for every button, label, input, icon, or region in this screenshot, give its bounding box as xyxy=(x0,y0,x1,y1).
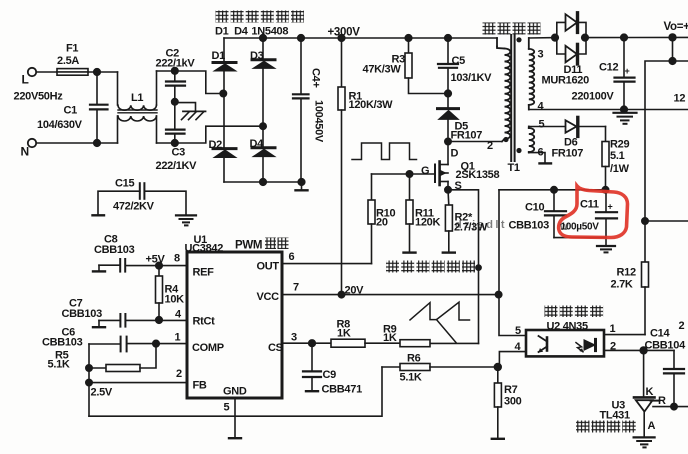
svg-text:CBB103: CBB103 xyxy=(94,244,135,256)
svg-text:D: D xyxy=(451,148,459,160)
diode D11 (parallel pair MUR1620) xyxy=(557,13,586,64)
watermark xyxy=(455,219,569,233)
ground stub HV- xyxy=(296,182,308,190)
wire L to fuse xyxy=(37,71,58,73)
node fuse/C1 junction xyxy=(94,69,101,76)
svg-text:D2: D2 xyxy=(209,139,223,151)
wire secondary return (pin4) xyxy=(529,109,688,111)
capacitor C6 xyxy=(89,337,127,352)
svg-text:2: 2 xyxy=(487,140,493,152)
op-amp U1 UC3842 box xyxy=(187,252,282,398)
ground below C12 xyxy=(614,110,637,124)
capacitor C15 xyxy=(93,183,187,215)
resistor R2 xyxy=(443,190,455,253)
wire OUT pin6 to R10 xyxy=(282,263,372,265)
capacitor C9 xyxy=(303,343,321,391)
capacitor C14 xyxy=(664,350,684,406)
svg-text:4: 4 xyxy=(175,309,182,321)
wire N to L1 xyxy=(37,142,118,144)
svg-text:T1: T1 xyxy=(508,162,520,174)
diode D4 xyxy=(252,126,275,182)
resistor R10 xyxy=(368,174,375,264)
svg-text:C15: C15 xyxy=(115,178,134,190)
svg-text:D1 D4 1N5408: D1 D4 1N5408 xyxy=(215,26,288,38)
node COMP/R5 xyxy=(153,340,160,347)
capacitor C1 xyxy=(90,72,108,143)
svg-text:FR107: FR107 xyxy=(552,148,584,160)
svg-text:UC3842: UC3842 xyxy=(185,243,224,255)
svg-text:R29: R29 xyxy=(610,139,629,151)
svg-text:D4: D4 xyxy=(250,138,265,150)
svg-text:FR107: FR107 xyxy=(451,130,483,142)
wire RtCt pin4 xyxy=(125,319,187,321)
svg-text:RtCt: RtCt xyxy=(193,316,216,328)
resistor R12 xyxy=(642,262,649,335)
svg-text:C9: C9 xyxy=(323,369,337,381)
node R3 top xyxy=(405,35,412,42)
optocoupler LED xyxy=(576,339,596,351)
svg-text:G: G xyxy=(421,165,429,177)
node C14/ref xyxy=(671,403,677,409)
svg-text:+: + xyxy=(625,66,630,76)
node D1/D2 midpoint xyxy=(220,90,226,96)
svg-text:REF: REF xyxy=(193,267,215,279)
svg-text:FB: FB xyxy=(193,380,207,392)
node VCC/20V xyxy=(495,291,501,297)
capacitor C3 xyxy=(166,102,185,146)
wire FB pin2 xyxy=(89,382,187,384)
diode D3 xyxy=(252,38,275,126)
wire GND pin5 stub xyxy=(229,398,241,438)
svg-text:5.1: 5.1 xyxy=(610,150,625,162)
node on sense line xyxy=(476,265,481,270)
svg-text:MUR1620: MUR1620 xyxy=(542,75,590,87)
svg-text:+5V: +5V xyxy=(146,254,166,266)
node gate/R11 xyxy=(406,171,412,177)
wire secondary top rail to D11 xyxy=(529,37,557,39)
svg-text:2: 2 xyxy=(679,320,685,332)
wire opto pin2 xyxy=(604,349,674,351)
capacitor C5 xyxy=(438,38,458,94)
svg-text:PWM: PWM xyxy=(235,240,262,252)
wire Vo jog to aux rail xyxy=(673,37,688,61)
wire fuse to node A xyxy=(88,71,118,73)
wire 20V (VCC pin7) xyxy=(282,294,499,296)
node D11 output xyxy=(582,34,589,41)
node C2/C3 midpoint xyxy=(172,99,178,105)
svg-text:D1: D1 xyxy=(212,50,226,62)
node Vo takeoff xyxy=(669,34,676,41)
svg-text:D3: D3 xyxy=(250,50,264,62)
terminal N xyxy=(28,139,36,147)
node N/C1 junction xyxy=(94,140,101,147)
svg-text:CBB103: CBB103 xyxy=(509,220,550,232)
ground below C11 xyxy=(597,246,615,252)
node R29 bottom xyxy=(602,187,608,193)
svg-text:2: 2 xyxy=(176,368,182,380)
svg-text:20V: 20V xyxy=(345,285,365,297)
svg-text:4: 4 xyxy=(538,101,545,113)
svg-text:R7: R7 xyxy=(504,384,518,396)
node D3 top xyxy=(260,35,267,42)
resistor R5 xyxy=(89,344,156,372)
node R12 rail branch xyxy=(642,218,648,224)
svg-text:120K/3W: 120K/3W xyxy=(349,99,394,111)
diode D1 xyxy=(213,38,236,94)
transistor Q1 2SK1358 xyxy=(435,142,448,190)
svg-text:120K: 120K xyxy=(415,217,440,229)
node C4 bottom xyxy=(298,179,305,186)
waveform square wave xyxy=(352,143,417,160)
svg-text:R: R xyxy=(658,395,666,407)
wire CS pin3 xyxy=(282,342,331,344)
resistor R6 xyxy=(382,364,498,371)
svg-text:220V50Hz: 220V50Hz xyxy=(14,91,64,103)
inductor L1 (common-mode choke) xyxy=(118,71,158,143)
node C12 top xyxy=(621,34,628,41)
svg-text:5.1K: 5.1K xyxy=(48,359,70,371)
node R1 top xyxy=(338,35,345,42)
wire primary ground rail xyxy=(89,367,382,416)
label 反激输出 xyxy=(483,23,541,35)
wire bridge negative rail xyxy=(224,181,302,183)
svg-text:20: 20 xyxy=(376,217,388,229)
node R4 top xyxy=(156,262,163,269)
svg-text:S: S xyxy=(455,180,462,192)
svg-text:CS: CS xyxy=(268,342,283,354)
capacitor C7 xyxy=(93,314,125,327)
svg-text:1K: 1K xyxy=(337,328,351,340)
svg-text:C14: C14 xyxy=(650,328,670,340)
svg-text:104/630V: 104/630V xyxy=(37,119,83,131)
transformer T1 core xyxy=(511,35,514,161)
svg-text:3: 3 xyxy=(538,49,544,61)
svg-text:47K/3W: 47K/3W xyxy=(363,64,402,76)
waveform sawtooth xyxy=(410,302,470,342)
svg-text:472/2KV: 472/2KV xyxy=(113,201,155,213)
svg-text:L1: L1 xyxy=(131,92,143,104)
svg-text:C1: C1 xyxy=(64,105,78,117)
svg-text:K: K xyxy=(646,386,654,398)
svg-text:300: 300 xyxy=(504,396,522,408)
svg-text:OUT: OUT xyxy=(257,261,280,273)
node D11 input xyxy=(552,34,559,41)
diode D6 FR107 xyxy=(566,117,606,136)
optocoupler phototransistor xyxy=(539,336,548,352)
transformer T1 secondary winding pins 3-4 xyxy=(529,38,534,110)
svg-text:1K: 1K xyxy=(383,332,397,344)
resistor R1 xyxy=(338,38,345,295)
svg-text:1: 1 xyxy=(175,332,181,344)
transformer T1 phase dot secondary bottom xyxy=(516,148,521,153)
ground (earth) at C15 xyxy=(176,215,196,225)
node second output xyxy=(669,58,676,65)
wire D11 to Vo xyxy=(586,36,688,38)
ground TL431 anode xyxy=(634,437,655,447)
svg-text:C12: C12 xyxy=(599,62,618,74)
svg-text:2.7/3W: 2.7/3W xyxy=(454,222,488,234)
optocoupler U2 4N35 box xyxy=(526,330,604,356)
wire branch to edge xyxy=(645,220,688,222)
svg-text:A: A xyxy=(648,420,656,432)
svg-text:2.5A: 2.5A xyxy=(57,55,79,67)
transformer T1 phase dot secondary top xyxy=(516,37,521,42)
svg-text:F1: F1 xyxy=(66,43,78,55)
svg-text:TL431: TL431 xyxy=(600,410,630,422)
svg-text:COMP: COMP xyxy=(192,342,224,354)
svg-text:C3: C3 xyxy=(172,147,186,159)
svg-text:5: 5 xyxy=(539,119,545,131)
svg-text:2: 2 xyxy=(610,341,616,353)
node C12 bottom xyxy=(621,106,628,113)
wire gate xyxy=(372,173,435,175)
resistor R29 xyxy=(602,127,609,190)
svg-text:220100V: 220100V xyxy=(572,91,615,103)
red annotation circle around C11 xyxy=(559,186,628,238)
capacitor C4 xyxy=(293,38,309,182)
wire to R12 branch xyxy=(645,61,673,262)
svg-text:222/1kV: 222/1kV xyxy=(156,58,196,70)
capacitor C12 xyxy=(615,38,635,110)
transformer T1 secondary winding pins 5-6 xyxy=(529,127,534,153)
node D3/D4 midpoint xyxy=(260,123,266,129)
svg-text:5: 5 xyxy=(515,325,521,337)
svg-text:7: 7 xyxy=(293,282,299,294)
svg-text:103/1KV: 103/1KV xyxy=(451,72,493,84)
capacitor C10 xyxy=(545,190,566,238)
wire REF pin8 xyxy=(126,265,187,267)
capacitor C8 xyxy=(93,259,125,272)
node R1/VCC junction xyxy=(338,291,344,297)
wire aux supply rail xyxy=(499,189,606,191)
svg-text:100µ50V: 100µ50V xyxy=(561,222,600,233)
svg-text:C11: C11 xyxy=(580,199,599,211)
transistor U3 TL431 xyxy=(634,350,688,437)
wire C10 to C11 bottom xyxy=(554,237,606,239)
svg-text:C10: C10 xyxy=(525,202,544,214)
node R6/R7/opto pin4 xyxy=(494,364,501,371)
label 市电整流滤波 xyxy=(216,11,305,23)
wire opto pin4 xyxy=(499,352,526,367)
wire feedback bus xyxy=(88,344,90,416)
resistor R3 xyxy=(405,38,448,94)
diode D2 xyxy=(213,94,236,183)
resistor R11 xyxy=(404,174,416,253)
svg-text:12: 12 xyxy=(674,93,686,105)
node R5 left xyxy=(86,365,92,371)
svg-text:N: N xyxy=(21,145,29,159)
svg-text:GND: GND xyxy=(223,386,247,398)
diode D5 xyxy=(438,94,459,142)
resistor R4 xyxy=(156,266,163,320)
svg-text:6: 6 xyxy=(289,251,295,263)
svg-text:Vo=+: Vo=+ xyxy=(664,21,688,33)
svg-text:5.1K: 5.1K xyxy=(400,372,422,384)
svg-text:CBB471: CBB471 xyxy=(322,384,363,396)
svg-text:2SK1358: 2SK1358 xyxy=(456,169,500,181)
svg-text:100450V: 100450V xyxy=(313,100,325,143)
resistor R8 xyxy=(331,339,400,347)
svg-text:U2 4N35: U2 4N35 xyxy=(547,321,588,333)
svg-text:1: 1 xyxy=(610,323,616,335)
wire COMP pin1 xyxy=(127,343,187,345)
svg-text:2.5V: 2.5V xyxy=(91,387,113,399)
label 输出电流调节 xyxy=(386,261,475,273)
node R3/C5/D5 xyxy=(445,90,452,97)
capacitor C11 xyxy=(596,190,617,246)
svg-text:R6: R6 xyxy=(407,353,421,365)
node pin2/TL431 xyxy=(640,347,647,354)
node R4 bottom / RtCt xyxy=(156,317,163,324)
capacitor C2 xyxy=(166,68,185,102)
svg-text:C5: C5 xyxy=(452,55,466,67)
node Q1 source xyxy=(445,187,451,193)
wire drain node to transformer pin2 xyxy=(448,141,501,143)
label 稳压控制 xyxy=(576,421,636,433)
node C10 top xyxy=(551,187,557,193)
svg-text:CBB103: CBB103 xyxy=(62,308,103,320)
svg-text:10K: 10K xyxy=(165,294,185,306)
node D5/drain/primary xyxy=(445,138,451,144)
node CS/C9 xyxy=(309,340,316,347)
wire source to CS sense xyxy=(448,190,479,344)
svg-text:+300V: +300V xyxy=(328,27,361,39)
node FB bus xyxy=(86,379,92,385)
terminal L xyxy=(28,68,36,76)
wire transformer pin6 stub xyxy=(529,153,551,164)
svg-text:CBB103: CBB103 xyxy=(42,337,83,349)
wire +300V top rail xyxy=(224,37,497,39)
wire sense to R9 xyxy=(430,342,479,344)
svg-text:8: 8 xyxy=(174,253,180,265)
svg-text:+: + xyxy=(608,202,613,212)
node C4 top xyxy=(298,35,305,42)
svg-text:CBB104: CBB104 xyxy=(645,340,687,352)
svg-text:R12: R12 xyxy=(617,267,636,279)
wire opto pin1 xyxy=(604,334,645,336)
wire VCC riser (aux to opto pin5) xyxy=(499,190,526,336)
transformer T1 primary winding xyxy=(497,38,510,142)
svg-text:/1W: /1W xyxy=(610,163,630,175)
resistor R9 xyxy=(400,340,430,347)
fuse F1 2.5A xyxy=(57,69,88,76)
node C5 top xyxy=(445,35,452,42)
svg-text:C4+: C4+ xyxy=(310,68,322,88)
svg-text:5: 5 xyxy=(224,402,230,414)
wire transformer pin5 to D6 xyxy=(529,126,565,128)
node D4 bottom xyxy=(260,179,267,186)
svg-text:L: L xyxy=(22,73,29,87)
svg-text:3: 3 xyxy=(291,332,297,344)
wire L1 to bridge (L phase) xyxy=(157,71,224,94)
svg-text:222/1KV: 222/1KV xyxy=(156,160,198,172)
resistor R7 xyxy=(492,367,504,439)
ground (chassis) at C2/C3 xyxy=(175,103,206,120)
label 光电隔离 xyxy=(545,306,604,318)
svg-text:2.7K: 2.7K xyxy=(611,279,633,291)
transformer T1 phase dot primary xyxy=(503,137,508,142)
wire L1 to bridge (N phase) xyxy=(157,126,263,143)
svg-text:VCC: VCC xyxy=(257,291,280,303)
svg-text:6: 6 xyxy=(538,147,544,159)
